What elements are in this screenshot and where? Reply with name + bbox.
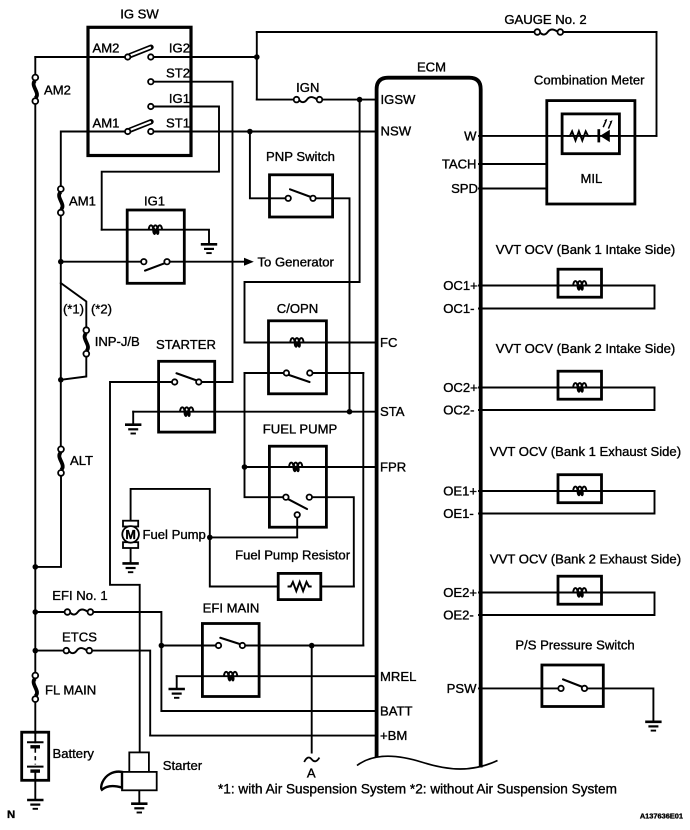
svg-text:SPD: SPD [451,181,478,196]
svg-text:PNP Switch: PNP Switch [266,149,335,164]
svg-text:FL MAIN: FL MAIN [45,682,96,697]
wire: To Generator row right segment [170,261,245,263]
wire: PSW row to P/S pressure switch [479,687,558,689]
MIL LED cathode bar [597,129,600,142]
svg-text:IG SW: IG SW [120,7,159,22]
wire: left main bus vertical (battery bus) [34,57,36,78]
svg-text:P/S Pressure Switch: P/S Pressure Switch [515,638,634,653]
wire: starter motor to ground [138,790,140,803]
contact AM2 [125,54,130,59]
svg-text:+BM: +BM [380,728,407,743]
relay IG1 box [127,210,184,283]
ground (fuel pump motor) [122,563,138,572]
fuse FL MAIN [32,673,38,702]
svg-text:ECM: ECM [417,60,446,75]
svg-text:VVT OCV (Bank 1 Exhaust Side): VVT OCV (Bank 1 Exhaust Side) [490,444,681,459]
svg-text:ALT: ALT [70,453,93,468]
ground (P/S pressure switch) [645,722,661,731]
svg-text:FPR: FPR [380,459,406,474]
svg-text:NSW: NSW [381,124,412,139]
PNP lever [290,189,312,197]
battery box [22,732,49,780]
svg-text:MIL: MIL [580,171,602,186]
relay EFI MAIN coil [224,672,237,682]
svg-text:GAUGE No. 2: GAUGE No. 2 [504,12,586,27]
node: EFI No.1 / left bus junction [33,609,39,615]
relay IG1 lever [145,263,165,270]
wire: vertical IG2 junction up to GAUGE row and down to IGN row [256,32,258,100]
PNP contact left [286,196,291,201]
wire OC2+ row [479,387,655,389]
svg-text:Battery: Battery [53,746,95,761]
svg-text:IGN: IGN [296,80,319,95]
svg-text:VVT OCV (Bank 2 Intake Side): VVT OCV (Bank 2 Intake Side) [496,341,676,356]
wire: PNP switch output down to STA row [316,198,350,411]
relay STARTER lever [177,373,197,380]
wire: AM1 vertical below fuse down to ALT fuse [60,213,62,450]
wire: P/S pressure switch output to ground [587,688,653,721]
P/S contact right [582,686,587,691]
svg-text:OE2-: OE2- [443,607,474,622]
relay FUEL PUMP lower contact [295,512,300,517]
node: INP-J/B branch junction [58,377,64,383]
wire: C/OPN coil row to ECM FC pin [245,342,377,344]
fuse AM1 [58,186,64,215]
relay STARTER contact right [196,379,201,384]
Combination Meter box [547,101,635,204]
svg-text:INP-J/B: INP-J/B [95,334,140,349]
wire: STARTER relay coil ground stub [132,412,134,425]
wire: BATT row to ECM BATT pin [161,710,376,712]
node: C/OPN-switch / FPR junction [242,464,248,470]
P/S lever [563,679,582,687]
svg-text:AM1: AM1 [93,116,120,131]
node: PNP/STA junction [347,409,353,415]
wire: C/OPN switch row right segment to vertical [313,372,364,374]
relay FUEL PUMP box [269,446,326,527]
node: EFI No.1 / EFI MAIN switch junction [159,643,165,649]
P/S Pressure Switch box [542,665,603,707]
wire: IG1 relay coil row to ground stub [102,230,209,244]
svg-text:STARTER: STARTER [156,337,216,352]
svg-text:AM2: AM2 [93,40,120,55]
ECM box outline [377,78,481,768]
svg-text:AM2: AM2 [44,82,71,97]
svg-text:IGSW: IGSW [381,92,417,107]
contact IG2 [148,54,153,59]
ground (battery negative, node N) [27,800,43,809]
svg-text:OE1-: OE1- [443,506,474,521]
relay C/OPN contact right [307,370,312,375]
svg-text:(*2): (*2) [91,301,112,316]
fuse ETCS [64,648,93,654]
node: IG2/GAUGE junction [254,54,260,60]
node: AM1/To-Generator junction [58,259,64,265]
wire: battery bottom to ground [34,780,36,799]
contact IG1 [148,104,153,109]
fuel pump motor circle M [122,526,139,543]
wire: fuel pump motor top feed [131,489,210,538]
PNP Switch box [270,175,333,217]
wire: EFI MAIN switch row left segment [161,645,215,647]
relay C/OPN coil [290,338,303,348]
fuse IGN [294,97,323,103]
wire OC2- return [479,388,655,411]
wire: SPD row [479,188,547,190]
relay EFI MAIN box [202,624,259,697]
relay EFI MAIN lever [220,638,240,644]
wire: C/OPN switch-left vertical down to fuel pump relay [245,373,284,497]
OCV U3 coil [573,487,586,497]
wire: +BM row to ECM +BM pin [150,735,376,737]
wire: NSW row (ST1 to ECM NSW pin) [154,131,377,133]
relay FUEL PUMP coil [289,463,302,473]
svg-text:OC1-: OC1- [443,301,474,316]
svg-text:N: N [7,809,15,821]
wire: EFI MAIN coil ground stub [176,676,178,688]
wire: (*2) branch bottom to junction [61,354,87,380]
svg-text:IG2: IG2 [169,40,190,55]
fuse INP-J/B [83,327,89,356]
wire: ALT line below fuse joining left bus [35,473,61,567]
MIL LED triangle [600,130,610,142]
wire: fuel pump relay lower contact to fuel pump motor node [210,518,297,538]
relay IG1 contact left [141,259,146,264]
starter main box [122,772,157,790]
svg-text:OE1+: OE1+ [443,483,477,498]
node: fuel pump motor node [207,535,213,541]
svg-text:TACH: TACH [442,156,477,171]
wire OE1- return [479,491,655,514]
OCV U4 coil [573,588,586,598]
svg-text:STA: STA [380,404,405,419]
wire: node A vertical [311,646,313,753]
fuse AM2 [32,75,38,104]
node: EFI MAIN output / node A junction [309,643,315,649]
contact ST2 [148,79,153,84]
wire: IGN row to ECM IGSW pin [257,99,297,101]
relay FUEL PUMP contact right [307,495,312,500]
node A break tilde [304,758,319,762]
svg-text:OC2-: OC2- [443,402,474,417]
wire: STARTER relay coil row to ECM STA pin [133,411,376,413]
To Generator arrow [244,258,254,266]
svg-text:ST1: ST1 [166,116,190,131]
wire: EFI MAIN coil row to ECM MREL pin [177,675,377,677]
OCV U4 box [558,576,602,604]
relay IG1 coil [149,225,162,235]
relay C/OPN contact left [284,370,289,375]
OCV U2 coil [573,383,586,393]
wire: EFI No.1 row right and vertical to EFI MAIN switch row / BATT row [90,612,161,711]
wire: EFI No.1 row left [35,611,67,613]
svg-text:IG1: IG1 [169,91,190,106]
wire: ETCS row left [35,650,66,652]
wire: To Generator row left segment [61,261,141,263]
svg-text:To Generator: To Generator [258,255,335,270]
wire: AM1 row from IG SW to AM1 fuse [61,132,125,190]
wire: IGSW junction down and over to C/OPN coil [245,100,360,343]
wire: fuel pump resistor right side [321,586,354,588]
svg-text:Fuel Pump: Fuel Pump [143,527,206,542]
wire: GAUGE No.2 top row [257,31,537,33]
svg-text:OC1+: OC1+ [443,278,478,293]
fuse ALT [58,446,64,475]
wire: EFI MAIN switch row right segment to C/OPN vertical [245,645,363,647]
battery internal plates [34,733,36,742]
starter bell housing curve [101,772,122,790]
svg-text:PSW: PSW [447,681,477,696]
fuel pump motor bottom cap [123,542,138,548]
svg-text:C/OPN: C/OPN [277,301,318,316]
fuse EFI No. 1 [65,609,94,615]
starter solenoid box [129,752,149,772]
svg-text:FC: FC [380,335,397,350]
OCV U1 coil [573,281,586,291]
wire: TACH row [479,163,547,165]
relay STARTER contact left [172,379,177,384]
wire OE2+ row [479,592,655,594]
wire: ST2 row and vertical down to starter relay [154,82,233,382]
relay EFI MAIN contact right [240,643,245,648]
wire: IG2 row to junction [154,56,257,58]
wire: STARTER relay switch left to starter motor feed [110,382,172,752]
wire OC1- return [479,286,655,309]
wire: right vertical from GAUGE row down to MIL row [656,32,658,136]
svg-text:EFI No. 1: EFI No. 1 [52,588,107,603]
wire: ETCS row right and vertical down to +BM row [89,651,150,736]
svg-text:FUEL PUMP: FUEL PUMP [263,421,338,436]
wire: STARTER relay switch right to ST2 vertical [202,381,233,383]
MIL LED flash arrows [603,121,606,127]
svg-text:A137636E01: A137636E01 [640,812,683,821]
relay STARTER box [159,361,215,432]
svg-text:Fuel Pump Resistor: Fuel Pump Resistor [235,547,351,562]
svg-text:AM1: AM1 [69,193,96,208]
svg-text:M: M [125,528,136,542]
ground (STARTER relay coil) [125,425,141,434]
svg-text:ETCS: ETCS [62,629,97,644]
wire: IG1 row jog to IG1 relay coil [102,107,219,230]
wire OE1+ row [479,490,655,492]
ignition switch box IG SW [88,27,191,155]
ECM bottom wavy break line [357,756,498,769]
wire: PNP switch feed from NSW row [250,132,286,199]
node: ETCS / left bus junction [33,648,39,654]
MIL resistor [568,131,590,140]
ground (IG1 relay coil) [201,244,217,253]
svg-text:Combination Meter: Combination Meter [534,73,645,88]
node: NSW/PNP junction [247,129,253,135]
svg-text:BATT: BATT [380,703,413,718]
OCV U2 box [558,371,602,399]
OCV U3 box [558,475,602,503]
wire: fuel pump motor ground stub [130,548,132,563]
svg-text:ST2: ST2 [166,66,190,81]
svg-text:OC2+: OC2+ [443,380,478,395]
relay FUEL PUMP contact left [283,495,288,500]
relay EFI MAIN contact left [216,643,221,648]
wire: FPR row from junction through fuel pump relay coil to ECM FPR pin [245,466,377,468]
fuel pump motor top cap [123,521,138,527]
wire: AM2 row from IG SW to left bus [35,56,125,58]
svg-text:VVT OCV (Bank 1 Intake Side): VVT OCV (Bank 1 Intake Side) [496,242,676,257]
node: IGN/IGSW junction [357,97,363,103]
MIL inner box [562,114,619,154]
wire: W row ECM to combination meter and up [479,135,657,137]
wire OC1+ row [479,285,655,287]
fuse GAUGE No. 2 [535,29,564,35]
svg-text:OE2+: OE2+ [443,585,477,600]
svg-text:Starter: Starter [163,758,203,773]
ground (starter motor) [131,804,147,813]
P/S contact left [558,686,563,691]
svg-text:IG1: IG1 [144,194,165,209]
Fuel Pump Resistor box [278,573,321,599]
svg-text:A: A [307,766,316,781]
relay C/OPN box [269,321,327,394]
switch lever AM2-IG2 [130,47,151,55]
svg-text:VVT OCV (Bank 2 Exhaust Side): VVT OCV (Bank 2 Exhaust Side) [490,551,681,566]
PNP contact right [310,196,315,201]
wire OE2- return [479,593,655,616]
relay C/OPN lever [288,375,309,382]
resistor element [289,582,311,591]
contact AM1 [125,129,130,134]
contact ST1 [148,129,153,134]
wire: C/OPN switch-right vertical down to EFI MAIN output row [362,373,364,646]
wire: (*2) branch diagonal top [61,283,87,330]
relay FUEL PUMP lever [288,499,307,509]
relay IG1 contact right [164,259,169,264]
svg-text:EFI MAIN: EFI MAIN [203,601,260,616]
node: ALT / left bus junction [33,564,39,570]
ground (EFI MAIN relay coil) [169,689,185,698]
wire: C/OPN switch row left segment [245,372,284,374]
svg-text:W: W [464,128,477,143]
svg-text:MREL: MREL [380,669,416,684]
relay STARTER coil [180,407,193,417]
wire: node down to fuel pump resistor [210,537,278,586]
switch lever AM1-ST1 [130,122,151,130]
wire: fuel pump relay switch right segment down to resistor [312,497,354,586]
OCV U1 box [558,269,602,297]
svg-text:*1: with Air Suspension System: *1: with Air Suspension System *2: witho… [218,781,617,796]
svg-text:(*1): (*1) [63,301,84,316]
